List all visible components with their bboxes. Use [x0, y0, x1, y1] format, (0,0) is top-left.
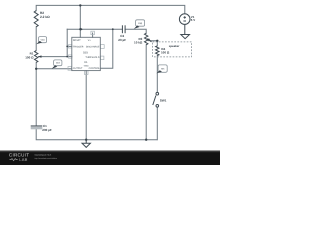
svg-text:LAB: LAB	[19, 157, 27, 162]
svg-text:cap: cap	[138, 22, 143, 25]
svg-text:20 µF: 20 µF	[118, 38, 126, 42]
svg-text:100 Ω: 100 Ω	[25, 55, 34, 59]
svg-text:555: 555	[83, 50, 88, 54]
svg-text:out: out	[56, 62, 60, 65]
svg-text:2.2 kΩ: 2.2 kΩ	[40, 15, 50, 19]
svg-text:CONTROL: CONTROL	[89, 67, 101, 70]
svg-text:DISCHARGE: DISCHARGE	[86, 45, 100, 48]
svg-text:5 V: 5 V	[191, 18, 195, 22]
svg-text:100 Ω: 100 Ω	[161, 50, 170, 54]
svg-text:SW1: SW1	[160, 99, 167, 103]
svg-text:vca: vca	[41, 39, 46, 42]
svg-text:200 µF: 200 µF	[42, 128, 52, 132]
svg-text:THRESHOLD: THRESHOLD	[85, 56, 100, 59]
svg-text:TRIGGER: TRIGGER	[73, 45, 84, 48]
svg-text:http://circuitlab.com/c/ddkfce: http://circuitlab.com/c/ddkfce	[34, 157, 57, 160]
svg-text:speaker: speaker	[169, 44, 180, 48]
svg-text:mountainyack / tty 3: mountainyack / tty 3	[34, 154, 51, 157]
svg-text:U1: U1	[84, 61, 88, 64]
svg-text:RESET: RESET	[73, 39, 81, 42]
svg-text:OUTPUT: OUTPUT	[73, 67, 83, 70]
svg-text:10 kΩ: 10 kΩ	[134, 40, 143, 44]
